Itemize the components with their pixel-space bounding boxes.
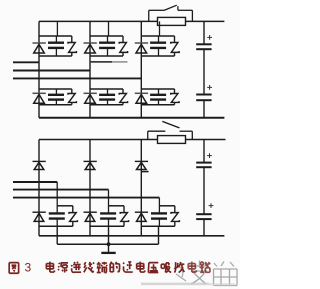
svg-text:3: 3 [25,260,32,274]
